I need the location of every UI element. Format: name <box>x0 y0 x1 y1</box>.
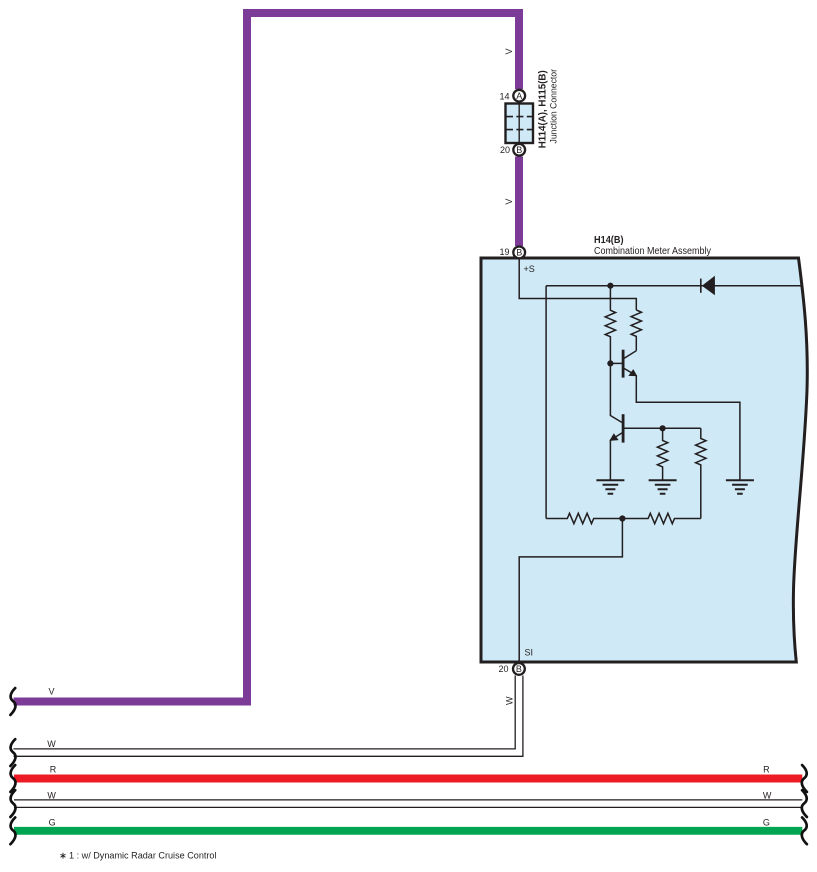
svg-text:W: W <box>763 791 772 801</box>
svg-text:20: 20 <box>500 145 510 155</box>
svg-text:Combination Meter Assembly: Combination Meter Assembly <box>594 246 711 257</box>
svg-text:W: W <box>47 791 56 801</box>
svg-text:B: B <box>516 664 522 674</box>
svg-text:20: 20 <box>498 664 508 674</box>
svg-text:G: G <box>763 818 770 828</box>
svg-text:Junction Connector: Junction Connector <box>549 68 560 143</box>
svg-text:G: G <box>49 818 56 828</box>
svg-text:R: R <box>50 765 57 775</box>
svg-text:1 : w/ Dynamic Radar Cruise Co: 1 : w/ Dynamic Radar Cruise Control <box>69 850 217 861</box>
svg-text:14: 14 <box>499 92 509 102</box>
svg-text:R: R <box>763 765 770 775</box>
svg-text:V: V <box>504 199 514 205</box>
svg-text:B: B <box>516 145 522 155</box>
svg-text:H114(A), H115(B): H114(A), H115(B) <box>538 70 549 148</box>
svg-text:V: V <box>504 48 514 54</box>
svg-text:V: V <box>49 686 55 696</box>
svg-text:H14(B): H14(B) <box>594 235 624 246</box>
svg-text:B: B <box>516 248 522 258</box>
svg-text:A: A <box>516 91 522 101</box>
svg-text:19: 19 <box>499 247 509 257</box>
svg-text:W: W <box>504 696 514 705</box>
svg-text:+S: +S <box>524 264 535 274</box>
svg-text:W: W <box>47 739 56 749</box>
svg-text:SI: SI <box>525 648 534 658</box>
